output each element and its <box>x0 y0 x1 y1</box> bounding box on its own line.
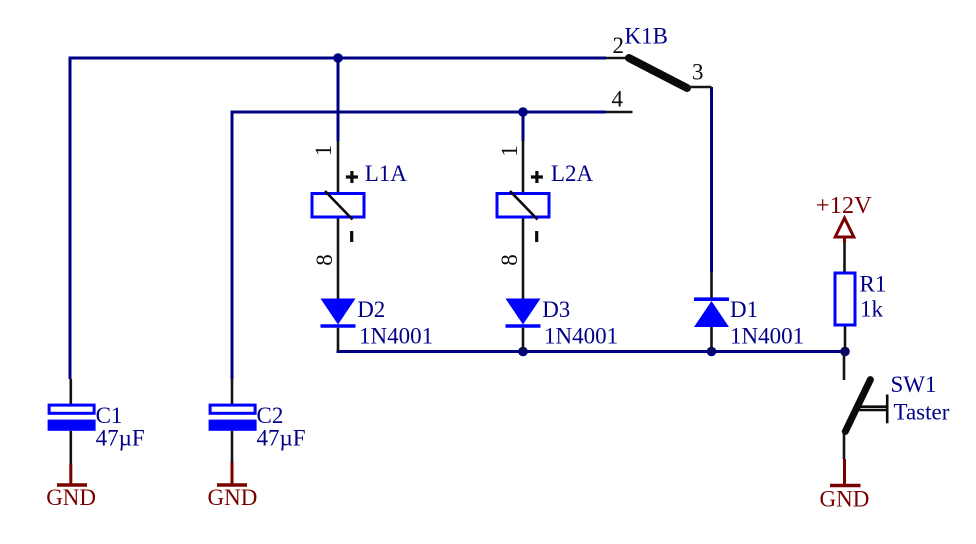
svg-text:SW1: SW1 <box>891 372 937 397</box>
svg-text:1N4001: 1N4001 <box>730 324 804 349</box>
svg-text:K1B: K1B <box>625 24 668 49</box>
pin 4 stub of K1B <box>606 111 633 114</box>
wire: L1A riser (blue part) <box>337 58 340 141</box>
svg-text:C1: C1 <box>96 403 123 428</box>
svg-text:L2A: L2A <box>551 161 594 186</box>
svg-text:C2: C2 <box>257 403 284 428</box>
svg-text:47µF: 47µF <box>257 426 306 451</box>
svg-text:1N4001: 1N4001 <box>359 324 433 349</box>
ground symbol at C2 <box>217 462 247 485</box>
svg-text:1: 1 <box>497 145 522 157</box>
svg-text:GND: GND <box>820 487 870 512</box>
diode D1 <box>694 272 729 351</box>
capacitor C1 <box>48 379 96 465</box>
svg-text:8: 8 <box>497 254 522 266</box>
switch K1B <box>606 58 712 88</box>
svg-text:2: 2 <box>613 33 625 58</box>
wire: bottom bus D2 to R1/SW1 node <box>338 350 845 352</box>
svg-text:3: 3 <box>692 60 704 85</box>
svg-text:L1A: L1A <box>365 161 408 186</box>
svg-text:D2: D2 <box>357 297 385 322</box>
wire: top bus from C1 riser to K1B pin 2 <box>70 58 606 379</box>
svg-text:GND: GND <box>208 485 258 510</box>
wire: L2A riser (blue part) <box>522 112 525 141</box>
svg-text:47µF: 47µF <box>96 426 145 451</box>
svg-text:1k: 1k <box>860 297 884 322</box>
wire: K1B pin3 down to D1 <box>710 87 713 272</box>
svg-text:D1: D1 <box>730 297 758 322</box>
svg-text:1N4001: 1N4001 <box>544 324 618 349</box>
svg-text:D3: D3 <box>542 297 570 322</box>
resistor R1 <box>835 273 855 351</box>
node: junction dot bus2 / L2A <box>518 107 528 117</box>
svg-text:8: 8 <box>312 254 337 266</box>
relay coil L2A <box>497 141 549 299</box>
node: junction dot bottom bus / D3 <box>518 347 528 357</box>
wire: second bus from C2 riser to pin 4 <box>232 112 606 379</box>
svg-text:GND: GND <box>46 485 96 510</box>
relay coil L1A <box>312 141 364 299</box>
diode D3 <box>506 299 541 352</box>
svg-text:4: 4 <box>612 87 624 112</box>
switch SW1 <box>844 352 887 460</box>
ground symbol at SW1 <box>830 459 861 486</box>
node: junction dot bus1 / L1A <box>333 53 343 63</box>
svg-text:R1: R1 <box>860 272 887 297</box>
ground symbol at C1 <box>57 464 87 485</box>
diode D2 <box>321 299 356 352</box>
capacitor C2 <box>209 379 257 465</box>
svg-text:+12V: +12V <box>816 192 872 219</box>
supply +12V <box>835 218 854 272</box>
svg-text:1: 1 <box>311 145 336 157</box>
svg-text:Taster: Taster <box>894 400 950 425</box>
node: junction dot bottom bus / D1 <box>707 347 717 357</box>
node: junction dot bottom bus / R1 / SW1 <box>840 347 850 357</box>
